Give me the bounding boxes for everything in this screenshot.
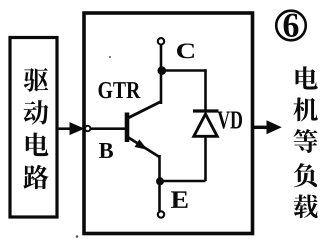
wire: output shaft (253, 126, 269, 129)
box: GTR module enclosure (84, 13, 253, 234)
text 机 (293, 97, 317, 121)
label VD (217, 112, 242, 129)
figure number 6 (284, 14, 299, 37)
text 载 (294, 194, 318, 218)
label E (171, 191, 188, 207)
text 电 (drive box) (26, 133, 49, 157)
scan speck 1 (109, 56, 111, 58)
text 负 (294, 163, 317, 187)
wire: collector node to diode top (162, 69, 206, 72)
text 动 (24, 100, 49, 124)
wire: drive output shaft (57, 127, 73, 130)
emitter arrowhead (135, 139, 148, 149)
wire: diode bottom lead (204, 136, 207, 181)
scan speck 2 (76, 235, 79, 238)
figure number circle (276, 11, 306, 41)
terminal C circle (158, 38, 164, 44)
terminal E circle (158, 211, 164, 217)
text 驱 (24, 68, 49, 92)
box: drive circuit (10, 38, 57, 218)
terminal B circle (85, 126, 90, 131)
wire: base lead (90, 127, 127, 130)
transistor GTR base bar (125, 113, 130, 143)
diode VD triangle (194, 114, 217, 136)
text 电 (load) (296, 66, 318, 89)
wire: diode top lead (204, 69, 207, 110)
wire: emitter node to diode bottom (160, 180, 206, 183)
arrowhead into B terminal (70, 122, 85, 135)
output arrowhead (267, 120, 282, 134)
wire: collector vertical lead (160, 44, 163, 104)
label B (99, 143, 113, 158)
label C (177, 43, 194, 58)
label GTR (99, 82, 141, 98)
text 路 (23, 165, 48, 189)
wire: emitter vertical lead (158, 155, 161, 211)
transistor emitter diagonal (126, 136, 160, 157)
transistor collector diagonal (126, 102, 161, 120)
junction dot (collector node) (158, 66, 167, 75)
junction dot (emitter node) (156, 177, 164, 185)
text 等 (294, 129, 318, 153)
diode VD cathode bar (193, 109, 219, 112)
